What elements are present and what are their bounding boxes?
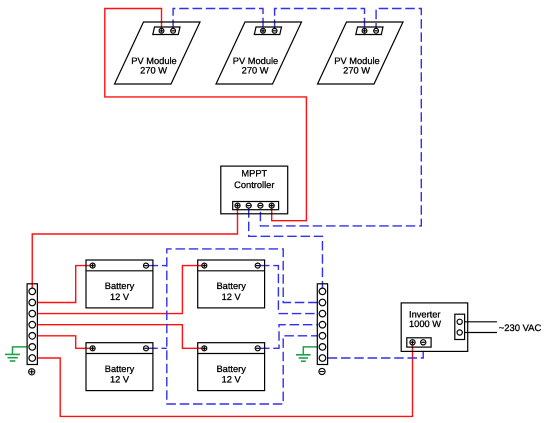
svg-text:Battery: Battery <box>216 364 246 374</box>
PV module 1 <box>115 22 201 84</box>
battery B3 <box>86 343 153 391</box>
wire battery negative loop to right bus 2 and 5 (blue dashed) <box>167 249 318 404</box>
wire MPPT T2 to right bus 1 (blue dashed) <box>249 208 323 288</box>
wire battery B4- to right bus 4 (blue dashed) <box>260 325 318 349</box>
inverter U2 <box>401 303 468 352</box>
ground symbol right <box>296 355 311 361</box>
wire left bus 3 to battery B2+ (red) <box>37 266 202 314</box>
bus bar negative (right) <box>317 284 327 365</box>
wire left bus 6 to ground (green) <box>13 347 28 355</box>
MPPT controller U1 <box>221 166 288 214</box>
svg-text:270 W: 270 W <box>343 65 370 75</box>
negative bus polarity mark <box>319 368 325 374</box>
battery B1 label <box>105 281 135 302</box>
svg-text:12 V: 12 V <box>110 292 130 302</box>
wire PV1+ to MPPT T4 (red) <box>105 9 307 221</box>
PV module 2 <box>216 22 302 84</box>
wire left bus 5 to battery B3+ (red) <box>37 336 90 349</box>
svg-text:~230 VAC: ~230 VAC <box>499 323 542 334</box>
svg-text:270 W: 270 W <box>140 65 167 75</box>
wire battery B2- to right bus 3 (blue dashed) <box>260 266 318 314</box>
PV module 3 <box>318 22 404 84</box>
PV module 2 label <box>233 56 278 75</box>
svg-text:Battery: Battery <box>216 281 246 291</box>
battery B4 label <box>216 364 246 385</box>
svg-text:Battery: Battery <box>105 364 135 374</box>
AC output line L <box>465 321 497 323</box>
svg-text:MPPT: MPPT <box>241 168 267 178</box>
inverter label <box>409 309 441 329</box>
battery B2 label <box>216 281 246 302</box>
bus bar positive (left) <box>27 284 37 365</box>
wire right bus 7 to inverter - (blue dashed) <box>328 347 424 358</box>
svg-text:Inverter: Inverter <box>409 309 441 319</box>
AC output line N <box>465 332 497 334</box>
wire PV3- to MPPT T3 (blue dashed) <box>260 9 421 226</box>
svg-text:12 V: 12 V <box>110 375 130 385</box>
svg-text:Battery: Battery <box>105 281 135 291</box>
battery B1 <box>86 260 153 308</box>
wire PV2- to PV3+ (blue dashed) <box>275 9 365 30</box>
PV module 1 label <box>131 56 176 75</box>
svg-text:270 W: 270 W <box>242 65 269 75</box>
PV module 3 label <box>334 56 379 75</box>
wire battery B1- to loop (blue dashed) <box>149 265 167 267</box>
wire battery B3- to loop (blue dashed) <box>148 347 167 349</box>
positive bus polarity mark <box>29 369 35 375</box>
wire left bus 7 to inverter + (red) <box>37 345 412 416</box>
battery B4 <box>198 343 265 391</box>
MPPT controller label <box>234 168 274 190</box>
wire PV1- to PV2+ (blue dashed) <box>173 9 263 30</box>
svg-text:1000 W: 1000 W <box>409 319 441 329</box>
battery B2 <box>198 260 265 308</box>
wire MPPT T1 to left bus (red) <box>32 208 237 288</box>
svg-text:Controller: Controller <box>234 180 274 190</box>
svg-text:12 V: 12 V <box>222 292 242 302</box>
wire left bus 2 to battery B1+ (red) <box>37 266 90 303</box>
AC output label <box>499 323 542 334</box>
wire right bus 6 to ground (green) <box>303 347 317 355</box>
wire left bus 4 to battery B4+ (red) <box>37 325 202 349</box>
svg-text:12 V: 12 V <box>222 375 242 385</box>
ground symbol left <box>5 354 20 361</box>
battery B3 label <box>105 364 135 385</box>
